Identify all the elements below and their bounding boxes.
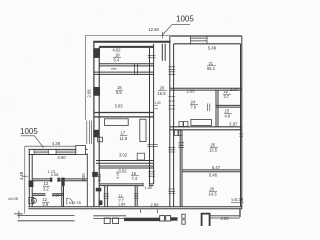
porch squares right vertical pair xyxy=(182,214,185,218)
dark block vestibule xyxy=(99,200,103,205)
retaining band segment C2 solid xyxy=(171,217,178,220)
node entrance circle 3 xyxy=(31,198,36,203)
svg-text:5.46: 5.46 xyxy=(209,173,218,178)
wire fraction bar room 24 xyxy=(190,103,198,105)
svg-text:1.40: 1.40 xyxy=(154,101,160,105)
window W4 lower west xyxy=(29,180,34,187)
wall small room west pair xyxy=(105,186,108,207)
wire fraction bar room 17 xyxy=(120,135,128,137)
wall east stub to band xyxy=(239,209,241,217)
wall room21 bottom xyxy=(170,88,242,90)
window hatch lower top B xyxy=(56,149,76,154)
door tick corridor west upper xyxy=(148,56,156,58)
svg-text:4.49: 4.49 xyxy=(19,171,24,180)
retaining band segment A xyxy=(18,215,75,220)
window block room16 left xyxy=(92,172,98,177)
pillar xyxy=(202,214,210,226)
wall rooms 22/23 divider xyxy=(216,105,241,107)
door rungs corridor east y100 xyxy=(168,97,175,110)
door jamb room13 right xyxy=(57,178,59,182)
room 11 labels xyxy=(119,194,124,203)
door jambs rooms 18/19 xyxy=(135,64,138,75)
wire fraction bar room 25 xyxy=(210,147,218,149)
svg-text:t=0.30: t=0.30 xyxy=(232,197,244,202)
wire fraction bar room 26 xyxy=(209,190,217,192)
wall west exterior inner xyxy=(98,47,100,207)
svg-text:3.00: 3.00 xyxy=(81,173,86,182)
svg-text:3.03: 3.03 xyxy=(115,103,124,108)
svg-text:3.90: 3.90 xyxy=(58,155,67,160)
wall lower section east xyxy=(86,153,88,206)
wall lower section top xyxy=(28,149,87,154)
wall slot lines xyxy=(94,72,154,74)
wire fraction bar room 19 xyxy=(113,56,121,58)
retaining band segment B xyxy=(93,216,126,219)
wall room17 bottom band1 xyxy=(96,161,154,164)
room 17 labels xyxy=(120,131,128,141)
wall bottom right lines xyxy=(211,216,241,218)
svg-text:9.5: 9.5 xyxy=(116,90,122,95)
window rungs east wall xyxy=(239,134,243,136)
svg-text:7.0: 7.0 xyxy=(191,105,197,110)
window sill rect room 24 xyxy=(191,120,212,126)
wire left survey horizontal xyxy=(25,145,86,147)
svg-text:2.94: 2.94 xyxy=(230,87,239,92)
door arc room 12 xyxy=(67,198,73,204)
door tick corridor west mid xyxy=(147,145,158,147)
svg-text:2.38: 2.38 xyxy=(52,193,59,197)
door jamb room16 xyxy=(143,183,149,187)
wire fraction bar room 20 xyxy=(158,90,167,92)
door box B above xyxy=(184,122,188,127)
door rungs corridor east y149 xyxy=(168,148,175,152)
door rungs partition xyxy=(134,194,138,199)
svg-text:12.60: 12.60 xyxy=(149,27,160,32)
svg-text:20: 20 xyxy=(160,86,165,91)
svg-text:1.85: 1.85 xyxy=(118,203,125,207)
svg-text:3.2: 3.2 xyxy=(43,186,49,191)
wall room17 bottom band2 xyxy=(99,166,153,168)
wall major mid horizontal xyxy=(170,127,242,130)
svg-text:11: 11 xyxy=(119,194,123,198)
wall room13 top xyxy=(32,179,87,181)
window W3 on west wall xyxy=(93,130,99,138)
svg-text:4.38: 4.38 xyxy=(52,141,61,146)
room 13 labels xyxy=(43,181,49,191)
wall rooms 22/24 divider xyxy=(216,90,218,127)
wire fraction bar room 18 xyxy=(116,89,124,91)
node door marks corridor mid xyxy=(155,105,159,109)
svg-text:7.4: 7.4 xyxy=(132,176,138,181)
room 20 labels xyxy=(158,86,167,96)
svg-text:13.5: 13.5 xyxy=(209,148,218,153)
svg-text:56.1: 56.1 xyxy=(207,66,216,71)
svg-text:1005: 1005 xyxy=(20,127,38,136)
svg-text:1.40: 1.40 xyxy=(145,186,152,190)
door rungs corridor east y70 xyxy=(168,67,175,75)
wall room19 bottom xyxy=(99,64,153,66)
door box C below xyxy=(175,130,178,135)
room 26 labels xyxy=(209,186,218,196)
wire dim tick xyxy=(162,32,164,39)
node shaft marks xyxy=(208,104,210,112)
svg-text:1005: 1005 xyxy=(176,15,194,24)
svg-text:3.7: 3.7 xyxy=(224,94,230,99)
wall rooms25-26 west xyxy=(180,130,182,207)
wall top exterior right segment xyxy=(171,35,242,37)
wire fraction bar room 21 xyxy=(207,65,216,67)
wall lower section west xyxy=(29,149,32,206)
room 16 labels xyxy=(132,171,138,181)
door box D below xyxy=(179,130,182,135)
svg-text:2.55: 2.55 xyxy=(187,88,196,93)
stair west verticals xyxy=(87,121,92,145)
svg-text:5.49: 5.49 xyxy=(208,45,217,50)
tall cupboard room 17 xyxy=(140,119,146,141)
wire left survey line xyxy=(84,36,86,121)
door rungs small room west xyxy=(103,194,108,199)
wall room18 bottom xyxy=(94,113,154,117)
room 24 labels xyxy=(191,99,197,109)
svg-text:11.9: 11.9 xyxy=(120,136,128,141)
wire fraction bar room 22 xyxy=(223,93,231,95)
room 22 labels xyxy=(224,89,230,99)
door jamb room13 left xyxy=(50,178,52,182)
wire fraction bar room 13 xyxy=(43,185,50,187)
wire fraction bar room 12 xyxy=(42,201,50,203)
window W1 on west wall xyxy=(93,48,100,58)
scan specks xyxy=(96,9,98,11)
window W2 on west wall xyxy=(93,87,100,96)
window W-top hatch xyxy=(191,38,208,41)
svg-text:16.8: 16.8 xyxy=(158,91,167,96)
wire dim tick left xyxy=(22,175,28,177)
retaining band segment C solid xyxy=(124,218,160,221)
wire left survey vertical xyxy=(24,146,26,213)
window hatch lower top A xyxy=(34,149,49,154)
wall west exterior outer xyxy=(93,41,95,207)
svg-text:14.3: 14.3 xyxy=(209,192,218,197)
window block vestibule top xyxy=(96,188,102,192)
svg-text:4.8: 4.8 xyxy=(225,114,231,119)
svg-text:2.87: 2.87 xyxy=(229,121,238,126)
wall partition x137 xyxy=(135,186,137,207)
wall bottom exterior xyxy=(28,207,242,209)
wall rooms 25/26 divider xyxy=(182,170,241,172)
svg-text:±0.05: ±0.05 xyxy=(8,196,19,201)
wall rooms13/12 divider xyxy=(32,194,63,196)
porch squares pair mid xyxy=(160,216,165,221)
wall room16 bottom xyxy=(99,184,153,186)
cupboard room 17 xyxy=(105,119,129,126)
wall corridor east double xyxy=(170,36,174,207)
wire fraction bar room 16 xyxy=(131,175,139,177)
room 19 labels xyxy=(113,47,122,62)
svg-text:2.68: 2.68 xyxy=(87,89,92,98)
bay rectangle xyxy=(76,145,86,154)
wire leader to left 1005 xyxy=(21,136,44,148)
door box A above xyxy=(179,122,183,127)
wall top exterior left segment xyxy=(93,41,170,43)
fixture sink room17 xyxy=(98,137,103,142)
svg-text:3.02: 3.02 xyxy=(119,169,128,174)
wall east exterior xyxy=(241,36,242,209)
wire leader to top 1005 xyxy=(162,25,190,36)
node survey cross xyxy=(14,211,23,218)
door rungs corridor east y190 xyxy=(168,189,175,194)
svg-text:6.4: 6.4 xyxy=(114,57,120,62)
wall room13 east xyxy=(62,179,64,207)
wire fraction bar room 11 xyxy=(118,197,124,199)
svg-text:13: 13 xyxy=(44,181,49,186)
door ticks below bottom wall xyxy=(140,210,157,214)
svg-text:3.02: 3.02 xyxy=(119,152,128,157)
room 21 labels xyxy=(207,45,217,71)
room 25 labels xyxy=(209,143,218,153)
room 18 labels xyxy=(115,85,124,108)
wire top survey line xyxy=(85,35,170,37)
svg-text:3.00: 3.00 xyxy=(221,216,230,221)
room 12 labels xyxy=(43,197,49,207)
svg-text:h=2.78: h=2.78 xyxy=(69,201,81,205)
fixture box room16 xyxy=(137,153,144,160)
room 23 labels xyxy=(225,109,231,119)
fixture room13 east xyxy=(62,178,65,186)
wall corridor west double xyxy=(150,44,154,184)
door rect lower west xyxy=(29,197,34,203)
porch squares pair left xyxy=(104,218,110,224)
door rungs corridor west room16 xyxy=(148,172,155,176)
wire fraction bar room 23 xyxy=(224,113,232,115)
svg-text:2.08: 2.08 xyxy=(51,173,58,177)
door rungs room25 west xyxy=(178,143,184,148)
wall corridor stub xyxy=(162,44,165,61)
